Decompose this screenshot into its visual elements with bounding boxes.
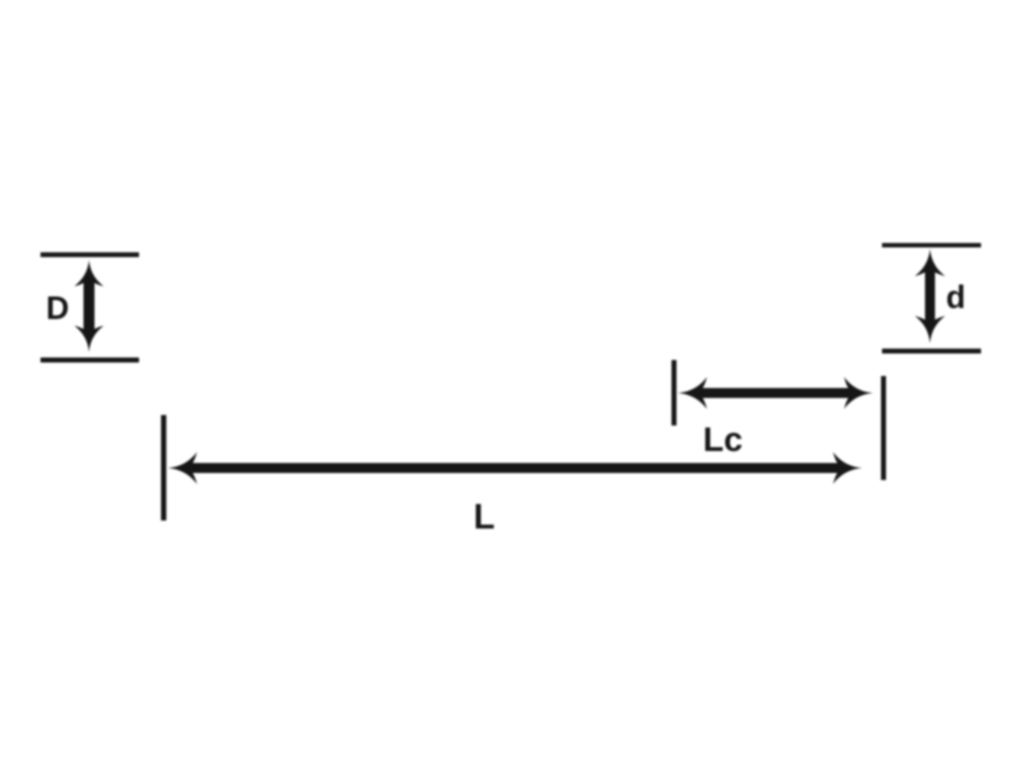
dimension arrow Lc (horizontal double-headed) [678, 377, 873, 409]
reference line D top [41, 252, 140, 257]
reference line D bottom [41, 358, 140, 363]
svg-text:d: d [946, 279, 966, 315]
extension tick L left [161, 415, 166, 521]
reference line d bottom [882, 349, 981, 354]
svg-text:L: L [474, 498, 495, 537]
svg-text:Lc: Lc [703, 421, 743, 459]
svg-text:D: D [46, 290, 69, 326]
extension tick Lc left [672, 360, 677, 426]
dimension arrow D (vertical double-headed) [74, 260, 103, 353]
dimension arrow d (vertical double-headed) [915, 249, 945, 344]
reference line d top [882, 243, 981, 247]
extension tick right (shared by Lc and L) [881, 376, 886, 480]
dimension arrow L (horizontal double-headed) [168, 452, 862, 484]
